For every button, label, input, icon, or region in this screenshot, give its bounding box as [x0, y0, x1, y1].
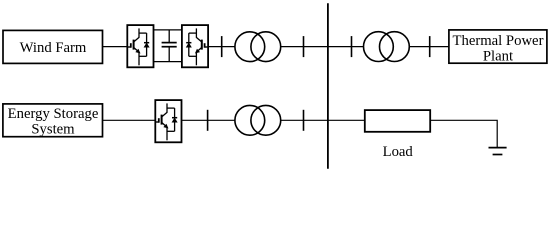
breaker tick C — [351, 36, 353, 57]
svg-text:Energy Storage: Energy Storage — [8, 106, 99, 122]
wire T2 to thermal power plant — [409, 46, 449, 48]
svg-text:System: System — [31, 122, 75, 138]
wire ESS to converter U3 — [103, 119, 156, 121]
wire load to ground corner — [430, 120, 497, 147]
wire T3 to bus — [281, 119, 328, 121]
wire bus to transformer T2 — [328, 46, 364, 48]
ground — [489, 148, 507, 155]
breaker tick D — [429, 36, 431, 57]
svg-text:Thermal Power: Thermal Power — [453, 33, 544, 49]
DC link top rail — [154, 29, 182, 31]
capacitor C1 (DC link) — [162, 30, 177, 62]
AC bus — [327, 3, 329, 169]
load resistor box — [365, 110, 430, 160]
svg-text:Plant: Plant — [483, 49, 513, 65]
energy storage system block — [3, 104, 103, 138]
svg-text:Load: Load — [383, 144, 414, 160]
DC link bottom rail — [154, 61, 182, 63]
wire U2 to transformer T1 — [208, 46, 235, 48]
wind farm block — [3, 30, 103, 63]
transformer T1 — [235, 32, 281, 62]
breaker tick B — [303, 36, 305, 57]
wire T1 to bus — [281, 46, 328, 48]
breaker tick A — [221, 36, 223, 57]
breaker tick F — [303, 110, 305, 131]
converter U2 (grid-side VSC, mirrored) — [182, 25, 208, 67]
breaker tick E — [207, 110, 209, 131]
converter U1 (machine-side VSC with IGBT and diode) — [127, 25, 153, 67]
wire U3 to transformer T3 — [182, 119, 236, 121]
wire wind farm to converter U1 — [103, 46, 128, 48]
wire bus to load — [328, 119, 365, 121]
thermal power plant block — [449, 30, 547, 65]
converter U3 (storage VSC) — [155, 100, 181, 142]
svg-text:Wind Farm: Wind Farm — [20, 40, 87, 56]
transformer T2 — [364, 32, 410, 62]
transformer T3 — [235, 105, 281, 135]
